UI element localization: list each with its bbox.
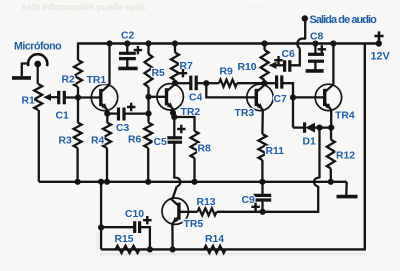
- svg-text:C5: C5: [154, 137, 168, 148]
- wire: R6 to ground rail: [147, 148, 149, 182]
- wire: C10 left lead: [101, 226, 135, 228]
- wire: feedback down and left to C9/R13: [217, 186, 319, 212]
- wire: tap down to C10 node: [100, 182, 102, 228]
- label: + of 12V: [374, 31, 383, 40]
- wire: rail to R7: [174, 44, 176, 53]
- wire: feedback tap down to hop: [318, 128, 320, 179]
- svg-text:R9: R9: [220, 67, 234, 78]
- label: + of C8: [318, 45, 326, 53]
- svg-text:r si el Fls ro: r si el Fls ro: [240, 1, 284, 11]
- capacitor C5: [167, 136, 182, 139]
- wire: mic to ground: [22, 64, 29, 77]
- svg-text:R3: R3: [59, 136, 73, 147]
- resistor R14: [204, 246, 226, 253]
- node: ground-rail tap for R15/C10: [98, 179, 104, 185]
- wire: TR3 emitter down: [261, 110, 264, 134]
- wire: C2 to ground bar: [126, 59, 128, 67]
- transistor TR1: [91, 84, 117, 110]
- wire: C5 down to hop: [173, 142, 175, 178]
- resistor R3: [74, 123, 82, 149]
- resistor R1 (potentiometer): [34, 84, 42, 110]
- svg-text:R15: R15: [115, 234, 134, 245]
- node: audio output terminal: [302, 15, 308, 21]
- wire: C6 to wiper: [277, 64, 285, 66]
- wire: TR1 emitter to C3: [107, 112, 118, 114]
- resistor R7: [171, 53, 179, 81]
- wire: down to R6: [147, 114, 149, 123]
- label: + of C10: [143, 216, 151, 224]
- wire: rail to R10: [263, 44, 265, 51]
- svg-text:Micrófono: Micrófono: [14, 40, 62, 52]
- wire: C4 to R9 node: [196, 82, 206, 84]
- label: + of C4: [179, 69, 187, 77]
- node: C9 bottom junction: [260, 209, 266, 215]
- node: C10/bottom junction: [147, 246, 153, 252]
- node: R12 ground: [328, 179, 334, 185]
- wire: +12V top rail: [78, 42, 379, 44]
- label: + of C5: [177, 125, 185, 133]
- node: collector rail dot: [106, 40, 112, 46]
- wire: rail left end down to R2: [77, 42, 79, 60]
- capacitor C7: [275, 75, 278, 88]
- wiper arrow of R1: [47, 96, 59, 98]
- svg-text:C2: C2: [121, 31, 135, 42]
- wire: C4 node down and to TR3 base: [206, 83, 256, 97]
- node: TR1 emitter junction: [104, 111, 110, 117]
- wire: collector node to C7: [264, 82, 276, 84]
- wire: C1 to base node: [64, 96, 78, 98]
- node: TR4 base junction: [290, 94, 296, 100]
- resistor R9: [219, 80, 237, 87]
- transistor TR4: [315, 84, 341, 110]
- microphone symbol: [28, 54, 47, 66]
- svg-text:C7: C7: [274, 94, 288, 105]
- wire: hop to TR5 collector: [173, 186, 177, 198]
- node: R3 ground: [75, 179, 81, 185]
- wire: emitter to R8 top: [174, 117, 194, 131]
- wire: C7 right to TR4 base node: [282, 83, 293, 97]
- svg-text:R14: R14: [205, 234, 224, 245]
- svg-text:C4: C4: [189, 93, 203, 104]
- wire: TR4 emitter down: [330, 110, 332, 128]
- wire: R9 to collector node: [237, 82, 264, 84]
- resistor R6: [144, 123, 152, 149]
- wire: R13 to TR5 base: [179, 211, 198, 213]
- wire: emitter node to R12: [330, 128, 332, 140]
- node: C3/R6 junction: [145, 111, 151, 117]
- resistor R5: [145, 54, 153, 87]
- svg-text:TR3: TR3: [235, 108, 255, 119]
- wire: TR5 emitter to bottom line: [171, 223, 174, 249]
- wire: node down to R3: [77, 98, 79, 123]
- wire: base node to TR1: [78, 96, 101, 98]
- capacitor C8: [308, 53, 324, 56]
- wire hop over rail (output line): [297, 38, 305, 48]
- label: + of C2: [134, 46, 142, 54]
- svg-text:TR5: TR5: [184, 219, 204, 230]
- svg-text:R7: R7: [180, 61, 194, 72]
- node: R4 ground: [104, 179, 110, 185]
- wire: rail to C9: [261, 182, 263, 195]
- wire: down to bottom line corner: [100, 227, 102, 249]
- node: R7 rail dot: [172, 40, 178, 46]
- wire: C6 right to output riser: [290, 48, 300, 65]
- wire: R3 to ground rail: [76, 148, 78, 182]
- diode D1: [303, 122, 306, 132]
- resistor R4: [103, 123, 111, 149]
- svg-text:C10: C10: [125, 209, 144, 220]
- ground (microphone): [12, 76, 31, 80]
- label: + of C9: [251, 203, 259, 211]
- node: C4/R9/TR3-base junction: [203, 80, 209, 86]
- node: TR5 emitter bottom dot: [170, 246, 176, 252]
- wire: right vertical rail (12V to bottom): [364, 44, 366, 250]
- wire: C3 to R6 column: [124, 112, 149, 114]
- wire: riser to output dot: [304, 19, 306, 40]
- resistor R15: [116, 246, 140, 253]
- wire: rail to R5: [147, 44, 149, 55]
- svg-text:12V: 12V: [371, 50, 391, 62]
- wire: TR2 collector to R7 node: [174, 82, 176, 85]
- capacitor C10: [133, 221, 136, 233]
- svg-text:C1: C1: [56, 111, 70, 122]
- node: TR2 emitter junction: [170, 110, 176, 116]
- node: TR4 emitter junction: [328, 125, 334, 131]
- wire: mic to R1: [37, 64, 39, 84]
- label: + of C6: [274, 56, 282, 64]
- node: TR2 base junction: [145, 94, 151, 100]
- wire: R11 to ground rail: [261, 160, 263, 182]
- node: C10 left junction: [98, 224, 104, 230]
- node: R11/C9 ground-rail dot: [259, 179, 265, 185]
- wire: bottom line: [101, 248, 366, 250]
- wiper arrow of R10: [272, 64, 277, 66]
- node: R10 rail dot: [262, 40, 268, 46]
- wire: TR3 collector up to node: [263, 83, 266, 84]
- svg-text:R2: R2: [62, 75, 76, 86]
- svg-text:R5: R5: [152, 68, 166, 79]
- node: R7/C4/TR2 junction: [172, 80, 178, 86]
- node: emitter dot: [171, 114, 177, 120]
- node: C8 rail dot: [312, 40, 318, 46]
- wire: emitter to R4: [106, 114, 108, 123]
- wire: rail to C2: [126, 44, 128, 54]
- svg-text:R6: R6: [128, 135, 142, 146]
- resistor R2: [74, 60, 82, 87]
- svg-text:C6: C6: [282, 49, 296, 60]
- wire: node to C4: [175, 82, 191, 84]
- wire: R8 to ground rail: [193, 158, 195, 182]
- capacitor C6: [283, 60, 286, 72]
- transistor TR5 (mirrored): [162, 198, 188, 224]
- node: feedback tap: [316, 125, 322, 131]
- node: R8 ground: [191, 179, 197, 185]
- wire: R1 down to ground rail corner: [38, 110, 40, 182]
- capacitor C3: [117, 108, 120, 121]
- node: C2 rail dot: [124, 40, 130, 46]
- wire: rail corner to ground: [345, 182, 348, 195]
- wire hop over ground rail (feedback line): [314, 178, 319, 186]
- wire: R2 to node: [77, 87, 79, 98]
- wire: ground mid rail: [39, 181, 347, 183]
- capacitor C2: [119, 52, 136, 55]
- wire: R10 to node: [263, 80, 266, 83]
- node: TR1 base junction: [75, 94, 81, 100]
- wire: R12 to ground rail: [330, 169, 332, 182]
- ground (C2): [118, 67, 137, 71]
- resistor R10 (preset): [261, 50, 269, 80]
- svg-text:R11: R11: [266, 146, 285, 157]
- transistor TR2: [157, 84, 183, 110]
- wire: C9 to feedback line: [261, 200, 263, 212]
- ground (main): [337, 195, 358, 199]
- svg-text:R4: R4: [91, 136, 105, 147]
- label: + of C3: [127, 103, 135, 111]
- svg-text:R10: R10: [238, 62, 257, 73]
- node: R5 rail dot: [145, 40, 151, 46]
- svg-text:Salida de audio: Salida de audio: [310, 14, 378, 26]
- wire: TR1 collector to rail: [108, 44, 110, 85]
- wire: C10 right lead down: [140, 227, 150, 249]
- resistor R13: [198, 208, 217, 215]
- wire hop over ground rail (TR5 collector line): [174, 178, 180, 187]
- svg-text:TR1: TR1: [87, 75, 107, 86]
- wire: R7 to node: [174, 80, 176, 83]
- wire: C8 to ground bar: [314, 61, 316, 69]
- wire: emitter down to C5: [173, 117, 175, 138]
- svg-text:R1: R1: [22, 96, 36, 107]
- svg-text:R13: R13: [197, 197, 216, 208]
- node: R10/R9/C7/collector junction: [261, 80, 267, 86]
- resistor R11: [258, 134, 266, 160]
- wire: TR4 collector to rail: [332, 44, 334, 85]
- resistor R12: [327, 140, 335, 169]
- wire: R5 to base node: [147, 87, 149, 97]
- wire: junction down to C3 node: [147, 97, 149, 114]
- wire: base node to TR2: [149, 96, 167, 98]
- wire: TR2 emitter node: [173, 109, 174, 117]
- wire: node to R9: [206, 82, 219, 84]
- wire: rail to C8: [314, 44, 316, 55]
- node: R6 ground: [145, 179, 151, 185]
- ground (C8): [306, 69, 324, 73]
- svg-text:D1: D1: [303, 137, 317, 148]
- capacitor C9: [254, 194, 272, 197]
- wire: R4 to ground rail: [106, 148, 108, 182]
- wire: D1 to emitter node: [315, 126, 331, 128]
- capacitor C4: [189, 76, 192, 91]
- scan shadow bottom: [100, 253, 366, 256]
- transistor TR3: [247, 84, 273, 110]
- wire: to D1: [293, 126, 305, 128]
- node: +12V terminal dot: [376, 40, 382, 46]
- resistor R8: [191, 131, 199, 158]
- svg-text:TR4: TR4: [335, 111, 355, 122]
- svg-text:R8: R8: [198, 144, 212, 155]
- wire: node to TR4 base: [293, 96, 325, 98]
- node: TR4 collector rail dot: [330, 40, 336, 46]
- svg-text:C8: C8: [310, 32, 324, 43]
- wire: TR4 base node down to D1: [292, 97, 294, 127]
- svg-text:esta información puede aplic: esta información puede aplic: [22, 2, 146, 12]
- svg-text:C9: C9: [242, 195, 256, 206]
- svg-text:C3: C3: [116, 123, 130, 134]
- capacitor C1: [57, 91, 60, 105]
- svg-text:R12: R12: [336, 151, 355, 162]
